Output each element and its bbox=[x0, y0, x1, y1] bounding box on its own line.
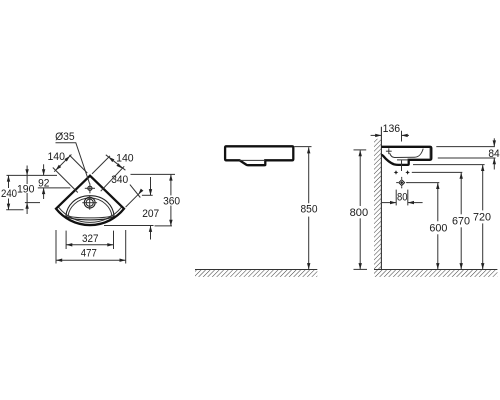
dimension 190 (vertical) bbox=[26, 166, 28, 185]
boss bottom level extension (720 top) bbox=[413, 164, 485, 166]
drain level line (190) bbox=[25, 202, 40, 204]
side view: basin profile bbox=[381, 147, 431, 165]
plan view: bowl outer rim bbox=[66, 196, 114, 220]
svg-text:140: 140 bbox=[47, 151, 65, 163]
dimension 670 bbox=[460, 173, 462, 215]
drain/overflow with crosshair bbox=[84, 197, 95, 208]
plan view: bowl inner rim bbox=[68, 198, 112, 218]
svg-text:800: 800 bbox=[350, 207, 369, 219]
side view: right end inner line bbox=[429, 148, 431, 159]
plan view: corner washbasin outline bbox=[56, 176, 124, 225]
left vertex extension line (45°) bbox=[69, 155, 87, 173]
136 right extension line (drain axis, above basin) bbox=[401, 131, 403, 142]
underside level extension line (84 bottom) bbox=[438, 157, 496, 159]
svg-text:720: 720 bbox=[473, 212, 491, 224]
front view: underside thin line across recess bbox=[239, 159, 265, 161]
faucet level line (92) bbox=[38, 187, 71, 189]
svg-text:240: 240 bbox=[1, 188, 17, 200]
bowl top level tick bbox=[142, 194, 153, 196]
80 left extension bbox=[395, 190, 397, 206]
dimension 92 (vertical, outside arrows) bbox=[43, 164, 45, 175]
dimension 84 bbox=[493, 138, 495, 146]
svg-text:850: 850 bbox=[301, 204, 318, 216]
leader line from Ø35 label to faucet hole bbox=[56, 143, 90, 184]
svg-text:207: 207 bbox=[142, 208, 159, 220]
front bottom level line (right part) bbox=[155, 225, 173, 227]
front bottom level line bbox=[104, 225, 154, 227]
right corner extension line bbox=[126, 192, 141, 207]
dimension 800 bbox=[359, 150, 361, 206]
800 top tick bbox=[354, 149, 367, 151]
850 top extension tick bbox=[294, 146, 311, 148]
side view: thin line across drain boss top bbox=[397, 159, 409, 161]
svg-text:190: 190 bbox=[17, 184, 35, 196]
svg-text:140: 140 bbox=[116, 153, 134, 165]
svg-text:Ø35: Ø35 bbox=[55, 131, 75, 143]
plan view: inner front rim arc bbox=[59, 207, 121, 222]
327 left extension line bbox=[65, 231, 67, 249]
front view: floor hatched strip bbox=[195, 269, 317, 271]
dimension 240 (vertical, inside arrows) bbox=[8, 175, 10, 188]
svg-text:670: 670 bbox=[452, 216, 470, 228]
side view: floor hatched strip bbox=[374, 269, 497, 271]
800 bottom tick bbox=[354, 268, 368, 270]
dimension 360 bbox=[170, 174, 172, 195]
fixing hole level extension (670 top) bbox=[412, 171, 463, 173]
240 level line bbox=[6, 209, 23, 211]
vertex level extension (right) bbox=[131, 173, 176, 175]
80 right extension bbox=[407, 190, 409, 206]
dimension 850 bbox=[308, 147, 310, 203]
dimension 477 bbox=[56, 259, 126, 261]
svg-text:340: 340 bbox=[111, 174, 128, 186]
drain outlet symbol bbox=[399, 180, 405, 186]
dimension track 140/340 right (two segments, gap for 340 text) bbox=[106, 155, 126, 170]
fixing hole diamonds bbox=[394, 170, 399, 175]
dimension line 140 left bbox=[54, 155, 71, 172]
faucet hole (Ø35) with crosshair bbox=[88, 186, 92, 190]
right vertex extension line (45°) bbox=[92, 156, 110, 174]
dimension 600 bbox=[437, 183, 439, 222]
side view: inner bowl line bbox=[390, 149, 424, 158]
svg-text:477: 477 bbox=[81, 248, 97, 260]
svg-text:84: 84 bbox=[488, 148, 499, 160]
front view: basin outline bbox=[225, 146, 293, 165]
drain axis below boss bbox=[401, 160, 403, 171]
left 140 mark extension line crossing edge bbox=[53, 168, 78, 193]
477 right extension line bbox=[125, 230, 127, 264]
svg-text:136: 136 bbox=[383, 123, 401, 135]
rim level extension line (84 top) bbox=[436, 146, 495, 148]
side view: tap hole cross bbox=[386, 150, 392, 152]
right 140 mark extension line crossing edge bbox=[101, 166, 125, 191]
dimension 136 bbox=[371, 134, 382, 136]
327 right extension line bbox=[113, 231, 115, 249]
svg-text:80: 80 bbox=[397, 192, 408, 204]
dimension 207 bbox=[150, 177, 152, 195]
side view: wall hatched strip bbox=[380, 127, 382, 270]
svg-text:92: 92 bbox=[38, 177, 49, 189]
vertex level extension line (left) bbox=[7, 174, 58, 176]
svg-text:360: 360 bbox=[163, 196, 180, 208]
drain level extension (600 top) bbox=[408, 182, 440, 184]
svg-text:600: 600 bbox=[429, 223, 447, 235]
svg-text:327: 327 bbox=[82, 233, 99, 245]
dimension 327 bbox=[66, 244, 113, 246]
dimension 720 bbox=[482, 165, 484, 211]
477 left extension line bbox=[55, 230, 57, 264]
